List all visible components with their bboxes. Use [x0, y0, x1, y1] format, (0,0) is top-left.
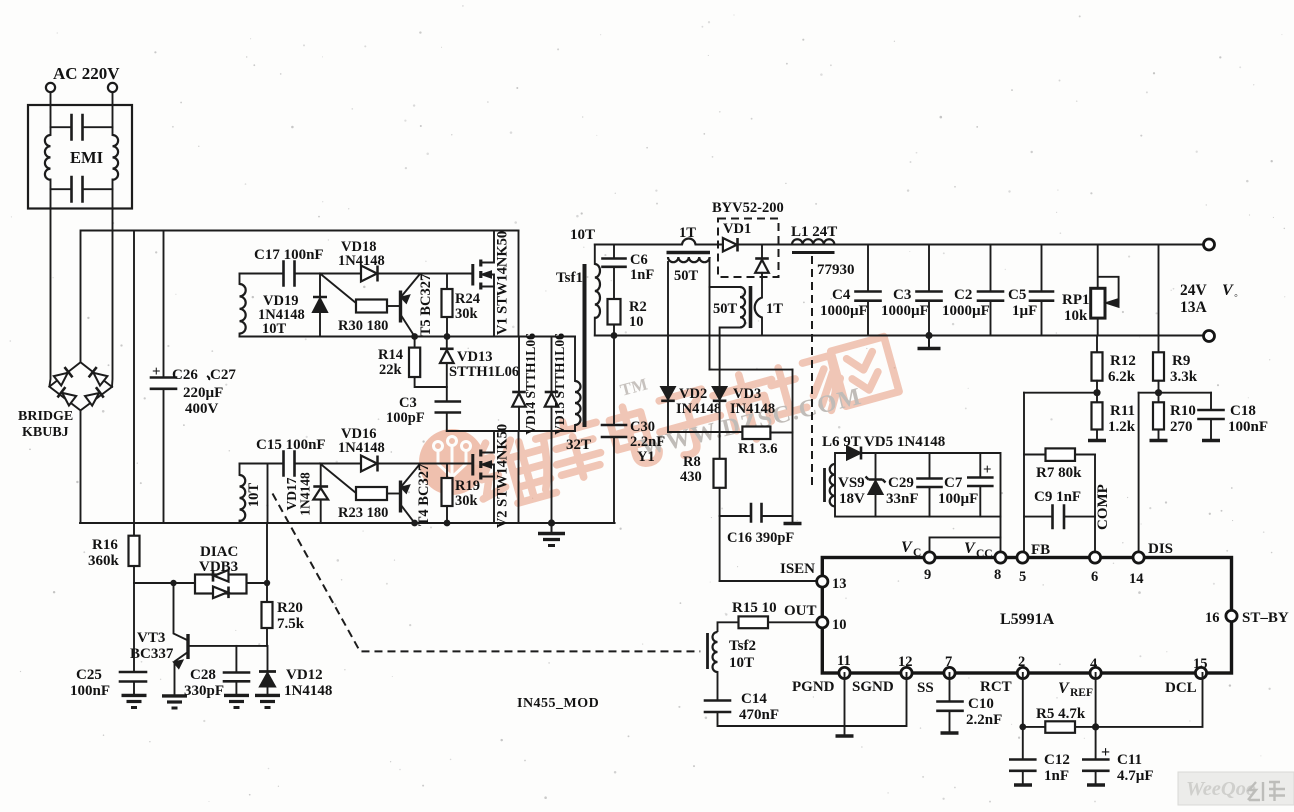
svg-text:11: 11	[837, 653, 851, 669]
svg-text:R23 180: R23 180	[338, 505, 388, 521]
wire CT50T left end down to VD2	[667, 262, 669, 387]
svg-text:C11: C11	[1117, 752, 1142, 768]
resistor R20	[266, 583, 268, 602]
driver2 10T box edge	[267, 464, 269, 524]
wire CT50T right end down	[709, 260, 711, 370]
capacitor C15	[284, 452, 295, 476]
svg-text:IN4148: IN4148	[676, 401, 721, 417]
MOSFET V1 STW14NK50	[473, 231, 494, 337]
svg-text:18V: 18V	[839, 491, 865, 507]
svg-text:C27: C27	[210, 367, 236, 383]
svg-text:C4: C4	[832, 287, 851, 303]
wire DIS node	[1139, 392, 1211, 394]
svg-text:R15 10: R15 10	[732, 600, 777, 616]
svg-text:R19: R19	[455, 478, 480, 494]
svg-text:100pF: 100pF	[386, 410, 425, 426]
svg-text:C26: C26	[172, 367, 198, 383]
svg-text:C3: C3	[399, 395, 417, 411]
svg-text:C15 100nF: C15 100nF	[256, 437, 326, 453]
node output ground	[925, 332, 932, 339]
wire FB node	[1024, 392, 1097, 394]
node R24 bottom	[444, 333, 451, 340]
diode VD2	[661, 387, 675, 401]
EMI filter box	[28, 105, 132, 209]
CT2 core	[749, 286, 753, 328]
MOSFET V2 STW14NK50	[473, 431, 494, 523]
svg-text:EMI: EMI	[70, 148, 103, 167]
diode VD14	[518, 337, 520, 393]
resistor R11	[1096, 393, 1098, 403]
capacitor C26 C27	[163, 231, 165, 378]
svg-text:C30: C30	[630, 419, 655, 435]
svg-text:ISEN: ISEN	[780, 561, 815, 577]
watermark char shi	[709, 367, 785, 447]
resistor R10	[1158, 393, 1160, 403]
svg-text:6: 6	[1091, 569, 1098, 585]
winding 1T second	[755, 298, 762, 318]
svg-text:C29: C29	[888, 475, 914, 491]
capacitor C3 out	[928, 245, 930, 292]
svg-text:1.2k: 1.2k	[1108, 419, 1136, 435]
capacitor C30	[613, 336, 615, 425]
capacitor C16	[720, 515, 751, 517]
svg-text:T4 BC327: T4 BC327	[416, 464, 432, 526]
wire DCL	[1096, 673, 1203, 727]
watermark logo circle	[419, 429, 485, 495]
svg-text:33nF: 33nF	[886, 491, 919, 507]
wire AC L down	[50, 92, 52, 135]
svg-text:IN4148: IN4148	[730, 401, 775, 417]
resistor R23	[356, 487, 387, 500]
wire DIAC right	[247, 582, 268, 584]
wire VD15 column to bottom bus	[551, 431, 553, 523]
svg-text:16: 16	[1205, 610, 1220, 626]
watermark char chang	[765, 353, 847, 425]
svg-text:C12: C12	[1044, 752, 1070, 768]
capacitor C10	[949, 673, 951, 701]
svg-text:Tsf2: Tsf2	[729, 638, 756, 654]
svg-text:13: 13	[832, 576, 847, 592]
resistor R5	[1023, 726, 1046, 728]
svg-text:Y1: Y1	[637, 449, 655, 465]
wire AC N below coil to bridge, crossing bus	[111, 180, 114, 387]
bridge rectifier BRIDGE KBUBJ	[49, 362, 112, 410]
wire top primary bus	[81, 230, 519, 232]
svg-text:+: +	[152, 364, 161, 380]
svg-text:4: 4	[1090, 656, 1097, 672]
svg-text:330pF: 330pF	[184, 683, 224, 699]
svg-text:KBUBJ: KBUBJ	[22, 425, 69, 440]
svg-text:VS9: VS9	[838, 475, 865, 491]
ground VT3	[162, 696, 187, 708]
svg-text:IN455_MOD: IN455_MOD	[517, 696, 599, 711]
capacitor C12	[1010, 760, 1035, 771]
wire VD2 VD3 bottoms	[668, 431, 742, 433]
svg-text:14: 14	[1129, 571, 1144, 587]
DIAC VDB3	[195, 575, 247, 594]
resistor R15	[768, 621, 817, 623]
winding CT 50T first	[668, 257, 710, 262]
svg-text:30k: 30k	[455, 306, 479, 322]
watermark char zi	[652, 386, 728, 460]
svg-text:L5991A: L5991A	[1000, 611, 1055, 628]
svg-text:C5: C5	[1008, 287, 1026, 303]
svg-text:1000µF: 1000µF	[881, 303, 929, 319]
wire pin11 ground	[844, 673, 846, 736]
svg-text:V1 STW14NK50: V1 STW14NK50	[495, 231, 511, 335]
svg-text:1N4148: 1N4148	[338, 440, 385, 456]
bridge diode D2 top-right	[89, 367, 108, 386]
diode VD12	[267, 646, 269, 671]
wire diagonal to R23	[320, 464, 356, 494]
resistor R12	[1096, 336, 1098, 353]
svg-text:1N4148: 1N4148	[284, 683, 332, 699]
resistor R16	[129, 536, 140, 566]
svg-text:7.5k: 7.5k	[277, 616, 305, 632]
svg-text:BYV52-200: BYV52-200	[712, 200, 784, 216]
winding Tsf2	[713, 632, 718, 672]
svg-text:C10: C10	[968, 696, 994, 712]
svg-text:100nF: 100nF	[70, 683, 110, 699]
svg-text:12: 12	[898, 654, 913, 670]
capacitor C3	[436, 402, 460, 413]
CT core bar	[667, 251, 711, 255]
WeeQoo watermark box	[1178, 772, 1294, 805]
resistor R9	[1153, 352, 1164, 380]
svg-text:13A: 13A	[1180, 299, 1208, 316]
bridge diode D3 bottom-left	[57, 387, 76, 406]
svg-text:1T: 1T	[679, 225, 696, 241]
node DIAC junction	[170, 580, 176, 586]
capacitor C18	[1210, 393, 1212, 410]
terminal AC L	[46, 83, 55, 92]
terminal output plus	[1204, 239, 1215, 250]
wire secondary top rail	[595, 244, 1204, 246]
wire driver1 bottom edge	[240, 336, 576, 338]
svg-text:RCT: RCT	[980, 679, 1012, 695]
winding driver2 10T	[240, 475, 246, 521]
svg-text:430: 430	[680, 469, 702, 485]
wire y370 CT return	[710, 369, 793, 371]
svg-text:SS: SS	[917, 680, 934, 696]
diode VD19	[319, 274, 321, 298]
svg-text:C18: C18	[1230, 403, 1256, 419]
capacitor C28	[235, 646, 237, 672]
svg-text:10T: 10T	[246, 483, 262, 508]
capacitor C17	[284, 262, 295, 286]
winding Tsf1 32T	[574, 337, 576, 382]
svg-text:50T: 50T	[713, 301, 738, 317]
svg-text:PGND: PGND	[792, 679, 835, 695]
svg-text:10: 10	[629, 314, 644, 330]
pin 15	[1195, 667, 1206, 678]
wire R9 column from top rail	[1158, 245, 1160, 353]
svg-text:DCL: DCL	[1165, 680, 1197, 696]
svg-text:360k: 360k	[88, 553, 120, 569]
winding driver1 10T	[240, 284, 246, 334]
pin 5	[1017, 552, 1028, 563]
svg-text:+: +	[983, 462, 992, 478]
svg-text:C9 1nF: C9 1nF	[1034, 489, 1081, 505]
pin 16	[1226, 610, 1237, 621]
ground bar CT	[784, 522, 802, 525]
svg-text:V: V	[1058, 680, 1070, 697]
svg-text:ST–BY: ST–BY	[1242, 610, 1289, 626]
pin 2	[1017, 667, 1028, 678]
watermark char ku	[529, 413, 609, 489]
inductor EMI L1	[45, 135, 51, 180]
diode VD17	[320, 464, 322, 487]
svg-text:R24: R24	[455, 291, 480, 307]
svg-text:R14: R14	[378, 347, 403, 363]
node R9 R10	[1155, 389, 1162, 396]
svg-text:RP1: RP1	[1062, 292, 1090, 308]
wire bus corner down to driver1 bottom	[518, 231, 520, 337]
ground VD12	[255, 695, 280, 707]
wire COMP column	[1094, 455, 1096, 558]
svg-text:1µF: 1µF	[1012, 303, 1037, 319]
svg-text:2.2nF: 2.2nF	[966, 712, 1002, 728]
diode VD16	[361, 456, 378, 472]
svg-text:C14: C14	[741, 691, 767, 707]
wire VREF column	[1095, 673, 1097, 759]
wire driver2 top wire	[240, 463, 283, 465]
transistor T4 BC327	[401, 465, 420, 524]
wire bridge minus down to bottom bus	[80, 410, 82, 523]
svg-text:10: 10	[832, 617, 847, 633]
svg-text:T5 BC327: T5 BC327	[418, 274, 434, 336]
wire VT3 collector row	[189, 645, 268, 647]
capacitor EMI X2	[51, 188, 72, 190]
svg-text:VD13: VD13	[457, 349, 492, 365]
capacitor C25	[133, 583, 135, 672]
inductor EMI L2	[113, 135, 119, 180]
resistor R1	[742, 427, 770, 440]
svg-text:77930: 77930	[817, 262, 855, 278]
wire pin12 ground	[845, 673, 907, 726]
wire bridge plus up to bus	[80, 231, 82, 363]
node R5 RCT	[1019, 724, 1026, 731]
svg-text:V: V	[901, 539, 913, 556]
bridge diode D1 top-left	[53, 367, 72, 386]
svg-text:COMP: COMP	[1095, 484, 1111, 530]
pin 14	[1133, 552, 1144, 563]
svg-text:220µF: 220µF	[183, 385, 223, 401]
svg-text:15: 15	[1193, 656, 1208, 672]
wire middle block bottom	[447, 430, 575, 432]
wire DIAC row	[134, 582, 195, 584]
svg-text:6.2k: 6.2k	[1108, 369, 1136, 385]
svg-text:1nF: 1nF	[1044, 768, 1069, 784]
wire AC N down	[112, 92, 114, 135]
dashed coupling driver2 to Tsf2	[273, 494, 701, 652]
svg-text:10T: 10T	[262, 321, 287, 337]
IC L5991A box	[822, 558, 1231, 674]
diode VD1	[723, 238, 738, 252]
svg-text:100µF: 100µF	[938, 491, 978, 507]
capacitor C11	[1083, 760, 1108, 771]
node R5 VREF	[1092, 723, 1099, 730]
svg-text:400V: 400V	[185, 401, 219, 417]
svg-text:2: 2	[1018, 654, 1025, 670]
svg-text:1T: 1T	[766, 301, 783, 317]
winding CT 50T second	[740, 287, 745, 327]
svg-text:10T: 10T	[570, 227, 595, 243]
capacitor C14	[717, 672, 719, 700]
capacitor EMI X1	[51, 126, 72, 128]
node R2 bottom	[611, 332, 618, 339]
pin 4	[1090, 667, 1101, 678]
wire CT ground column	[792, 370, 794, 523]
capacitor C7	[979, 453, 981, 477]
node R12 R11	[1093, 389, 1100, 396]
wire AC L below coil to bridge	[49, 180, 50, 387]
winding L6	[830, 464, 835, 506]
watermark char dian	[607, 401, 662, 470]
pin 9	[924, 552, 935, 563]
wire FB column down to pin 5	[1023, 393, 1025, 558]
svg-text:C25: C25	[76, 667, 102, 683]
svg-text:Tsf1: Tsf1	[556, 270, 583, 286]
svg-text:R8: R8	[683, 454, 701, 470]
winding CT 1T top	[682, 239, 696, 245]
svg-text:1N4148: 1N4148	[298, 472, 313, 516]
svg-text:VD1: VD1	[723, 221, 751, 237]
L6 core mark	[823, 468, 826, 502]
svg-text:OUT: OUT	[784, 603, 817, 619]
svg-text:BC337: BC337	[130, 646, 174, 662]
svg-text:5: 5	[1019, 569, 1026, 585]
diode VD13	[446, 337, 448, 349]
V2 label box edge	[518, 431, 520, 523]
resistor R2	[608, 299, 621, 325]
svg-text:VDB3: VDB3	[199, 559, 238, 575]
pin 6	[1089, 552, 1100, 563]
wire jog to 50T-2 top	[710, 286, 741, 288]
pin 8	[995, 552, 1006, 563]
wire secondary bottom rail	[595, 335, 1204, 337]
wire ISEN	[720, 580, 817, 582]
svg-text:VD3: VD3	[733, 386, 761, 402]
wire VC tie	[930, 537, 1001, 557]
svg-text:C16 390pF: C16 390pF	[727, 530, 794, 546]
diode VD15	[551, 337, 553, 393]
svg-text:R12: R12	[1110, 353, 1136, 369]
wire driver2 left edge	[239, 464, 241, 476]
watermark char wang	[831, 337, 899, 407]
svg-text:50T: 50T	[674, 268, 699, 284]
dashed coupling L1-L6	[811, 256, 813, 486]
svg-text:DIS: DIS	[1148, 541, 1173, 557]
WATERMARK LAYER	[419, 333, 901, 514]
svg-text:SGND: SGND	[852, 679, 894, 695]
capacitor C5	[1041, 245, 1043, 292]
pin 7	[944, 667, 955, 678]
svg-text:R1 3.6: R1 3.6	[738, 441, 777, 457]
wire bottom primary bus	[80, 522, 615, 524]
resistor R8	[714, 459, 726, 488]
svg-text:10k: 10k	[1064, 308, 1088, 324]
ground C28	[224, 695, 249, 707]
diode VD3	[713, 387, 727, 401]
svg-text:270: 270	[1170, 419, 1193, 435]
svg-text:R16: R16	[92, 537, 118, 553]
svg-text:R7 80k: R7 80k	[1036, 465, 1082, 481]
BYV52 dashed box	[718, 219, 779, 278]
svg-text:1N4148: 1N4148	[338, 253, 385, 269]
svg-text:REF: REF	[1070, 687, 1093, 699]
wire RCT column	[1022, 673, 1024, 759]
wire diagonal to R30	[320, 274, 356, 304]
capacitor C2	[990, 245, 992, 292]
node R19 bottom	[444, 520, 451, 527]
svg-text:V: V	[1222, 282, 1234, 299]
svg-text:AC 220V: AC 220V	[53, 64, 120, 83]
wire winding box to DIAC crossing bus	[266, 523, 268, 583]
svg-text:100nF: 100nF	[1228, 419, 1268, 435]
resistor R7	[1024, 454, 1046, 456]
ground primary	[538, 523, 565, 546]
svg-text:VD15 STTH1L06: VD15 STTH1L06	[552, 333, 567, 435]
svg-text:◦: ◦	[1234, 290, 1238, 302]
svg-text:2.2nF: 2.2nF	[630, 434, 665, 450]
node T5 collector	[411, 333, 418, 340]
resistor R14	[414, 337, 416, 348]
pin 12	[901, 667, 912, 678]
diode VD18	[361, 266, 378, 282]
svg-text:22k: 22k	[379, 362, 403, 378]
terminal output minus	[1204, 331, 1215, 342]
Tsf2 core	[706, 633, 709, 669]
zener VS9	[875, 453, 877, 479]
svg-text:DIAC: DIAC	[200, 544, 238, 560]
svg-text:VD12: VD12	[286, 667, 323, 683]
svg-text:WeeQoo: WeeQoo	[1186, 778, 1256, 800]
node ground tap	[548, 519, 555, 526]
svg-text:1nF: 1nF	[630, 267, 654, 283]
svg-text:FB: FB	[1031, 542, 1050, 558]
svg-text:30k: 30k	[455, 493, 479, 509]
svg-text:STTH1L06: STTH1L06	[449, 364, 519, 380]
wire driver1 left edge	[239, 274, 241, 285]
svg-text:7: 7	[945, 654, 952, 670]
svg-text:L1 24T: L1 24T	[791, 224, 837, 240]
inductor L1	[792, 239, 834, 244]
svg-text:VD2: VD2	[679, 386, 707, 402]
capacitor C29	[929, 453, 931, 478]
pin 11	[839, 667, 850, 678]
diode VD5	[847, 447, 861, 460]
svg-text:R2: R2	[629, 299, 647, 315]
svg-text:C17 100nF: C17 100nF	[254, 247, 324, 263]
resistor R30	[356, 300, 387, 313]
wire 50T-2 bottom jog	[720, 328, 740, 388]
svg-text:V: V	[964, 540, 976, 557]
svg-text:C2: C2	[954, 287, 972, 303]
svg-text:BRIDGE: BRIDGE	[18, 409, 73, 424]
pin 10	[817, 617, 828, 628]
bridge diode D4 bottom-right	[85, 387, 104, 406]
svg-text:C3: C3	[893, 287, 911, 303]
svg-text:8: 8	[994, 567, 1001, 583]
winding Tsf1 10T aux	[594, 245, 596, 265]
svg-text:4.7µF: 4.7µF	[1117, 768, 1154, 784]
diode VD1b freewheel	[761, 245, 763, 259]
svg-text:3.3k: 3.3k	[1170, 369, 1198, 385]
svg-text:R9: R9	[1172, 353, 1190, 369]
wire DIS down to pin14	[1138, 393, 1140, 558]
capacitor C4	[867, 245, 869, 292]
